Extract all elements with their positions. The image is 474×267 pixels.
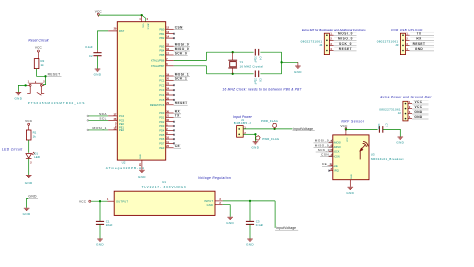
svg-text:PD6: PD6 <box>159 137 165 141</box>
svg-text:AVCC: AVCC <box>146 24 149 30</box>
wire U1 GND <box>223 205 231 217</box>
wire J1 pin1 to inputVoltage <box>243 128 292 130</box>
svg-text:PWR_FLAG: PWR_FLAG <box>262 137 279 141</box>
svg-text:RESET: RESET <box>48 73 61 77</box>
wire R2 to RESET node <box>37 69 46 77</box>
svg-text:GND: GND <box>226 221 234 225</box>
svg-text:XTAL2/PB7: XTAL2/PB7 <box>151 64 165 68</box>
pin 3 (J3) <box>402 45 404 47</box>
pin PC1 (MCU right) <box>166 79 174 81</box>
svg-text:U3: U3 <box>371 152 375 156</box>
pin RST (MCU left) <box>108 30 117 32</box>
pin RESET/PC6 (MCU right) <box>166 104 174 106</box>
capacitor C3 <box>249 201 251 222</box>
wire crystal right rail <box>281 52 283 74</box>
svg-text:VCC: VCC <box>347 137 349 142</box>
svg-text:PD7: PD7 <box>159 141 165 145</box>
svg-text:PD2: PD2 <box>159 120 165 124</box>
svg-text:PTS645SM43SMTR92_LFS: PTS645SM43SMTR92_LFS <box>28 101 86 105</box>
svg-text:IRQ: IRQ <box>334 169 339 173</box>
RF module U3 body <box>333 135 369 180</box>
wire VCC to OUTPUT pin <box>91 200 108 202</box>
pin 1 (J3) <box>402 34 404 36</box>
wire crystal bottom rail <box>206 73 253 75</box>
svg-text:10uF: 10uF <box>377 123 380 130</box>
no-connect IRQ <box>328 170 330 172</box>
svg-text:PD3: PD3 <box>159 124 165 128</box>
svg-text:Extra Power and Ground Rail: Extra Power and Ground Rail <box>381 95 432 99</box>
svg-text:J3: J3 <box>395 43 399 47</box>
MCU U2 ATmega328PB-AU body <box>117 22 165 160</box>
pin 4 (J3) <box>402 50 404 52</box>
pin 2 (J2) <box>405 108 407 110</box>
svg-text:PC3: PC3 <box>159 88 165 92</box>
pin PD2 (MCU right) <box>166 121 174 123</box>
svg-text:CE: CE <box>334 164 338 168</box>
svg-text:OUTPUT: OUTPUT <box>116 199 128 203</box>
svg-text:PD0: PD0 <box>159 111 165 115</box>
svg-text:PWR_FLAG: PWR_FLAG <box>261 119 278 123</box>
pin PD6 (MCU right) <box>166 138 174 140</box>
svg-text:CSN_1: CSN_1 <box>321 153 333 157</box>
pin PD4 (MCU right) <box>166 129 174 131</box>
no-connect PD4 <box>173 130 175 132</box>
svg-text:GND: GND <box>23 212 31 216</box>
svg-text:VCC: VCC <box>35 46 43 50</box>
svg-text:PD4: PD4 <box>159 128 165 132</box>
connector J1 <box>237 126 244 138</box>
node crystal top <box>232 51 234 53</box>
pin MISO (U3) <box>329 146 333 148</box>
svg-text:PC4: PC4 <box>159 93 165 97</box>
svg-text:GND: GND <box>94 73 102 77</box>
pin 1 (J4) <box>326 34 328 36</box>
svg-text:J2: J2 <box>398 111 402 115</box>
pin 3 (J4) <box>326 45 328 47</box>
pin OUTPUT (U1) <box>108 200 115 202</box>
node right rail <box>280 61 282 63</box>
pin 2 (J4) <box>326 40 328 42</box>
svg-text:VCC: VCC <box>141 24 143 29</box>
wire to input GND <box>254 134 256 141</box>
svg-text:C2: C2 <box>89 54 93 58</box>
svg-text:GND: GND <box>396 141 404 145</box>
capacitor C6 (bottom) <box>255 71 258 78</box>
svg-text:22pF: 22pF <box>254 56 257 63</box>
resistor R2 <box>34 59 39 69</box>
ground (C1) <box>97 239 103 241</box>
svg-text:MISO: MISO <box>334 145 341 149</box>
svg-text:PC2: PC2 <box>159 83 165 87</box>
svg-text:LED Circuit: LED Circuit <box>2 148 23 152</box>
pin MOSI (U3) <box>329 142 333 144</box>
svg-text:Y1: Y1 <box>240 60 244 64</box>
pin VCC (NRF top) <box>345 129 347 135</box>
svg-text:TLV2217- 33XVURG3: TLV2217- 33XVURG3 <box>142 185 187 189</box>
wire VCC rail to MCU <box>98 14 141 16</box>
no-connect PC5 <box>173 99 175 101</box>
wire C7 to GND <box>383 129 401 136</box>
ground (net label) <box>24 208 30 210</box>
svg-text:GND: GND <box>96 243 104 247</box>
svg-text:MISO_0_1: MISO_0_1 <box>315 143 334 147</box>
svg-text:INPUT: INPUT <box>204 199 213 203</box>
pin 2 (J3) <box>402 40 404 42</box>
wire R1 to D1 <box>28 140 30 153</box>
pin GND (MCU bottom) <box>141 160 143 170</box>
pin PE2/MOSI_1 (MCU left) <box>87 129 89 131</box>
ground (U3) <box>348 187 354 189</box>
connector J2 <box>403 101 408 121</box>
capacitor C4 (top) <box>255 49 258 56</box>
pin PD0 (MCU right) <box>166 112 174 114</box>
node NRF VCC junction <box>345 128 347 130</box>
svg-text:LED: LED <box>34 155 40 159</box>
pin PC5 (MCU right) <box>166 99 174 101</box>
pin VCC (MCU top) <box>141 15 143 22</box>
wire C3 to GND <box>249 224 251 238</box>
svg-text:0.1uF: 0.1uF <box>85 45 93 49</box>
wire GND label to ground <box>27 198 29 207</box>
pin 1 (J2) <box>405 103 407 105</box>
no-connect PD6 <box>173 138 175 140</box>
ground (input power) <box>253 142 259 144</box>
svg-text:VCC: VCC <box>25 119 33 123</box>
capacitor C7 (NRF decoupling) <box>379 126 382 133</box>
no-connect PD2 <box>173 121 175 123</box>
svg-text:VCC: VCC <box>79 199 87 203</box>
pin PE3 (MCU right) <box>166 147 174 149</box>
switch SW1 PTS645 <box>27 81 44 95</box>
svg-text:16 MHZ Crystal: 16 MHZ Crystal <box>240 64 264 68</box>
pin PC4/SDA (MCU left) <box>87 115 89 117</box>
wire inputVoltage drop <box>274 201 276 228</box>
connector J3 <box>400 33 405 54</box>
svg-text:PC4: PC4 <box>119 114 125 118</box>
wire AVCC branch <box>142 15 146 22</box>
svg-text:B4B4B5-J: B4B4B5-J <box>234 121 251 125</box>
no-connect PB1 <box>173 33 175 35</box>
node RESET junction <box>44 75 46 77</box>
svg-text:MOSI_1: MOSI_1 <box>93 126 107 130</box>
svg-text:PE2: PE2 <box>119 128 124 132</box>
no-connect PC3 <box>173 89 175 91</box>
svg-text:GND: GND <box>25 181 33 185</box>
no-connect PC4 <box>173 94 175 96</box>
svg-text:1k: 1k <box>33 134 37 138</box>
wire INPUT to inputVoltage <box>223 200 276 202</box>
svg-text:PC1: PC1 <box>159 78 165 82</box>
svg-text:C4: C4 <box>258 56 261 60</box>
svg-text:22uF: 22uF <box>106 223 113 227</box>
pin XTAL2/PB7 (MCU right) <box>166 65 174 67</box>
svg-text:MOSI: MOSI <box>334 141 341 145</box>
pin PB4 (MCU right) <box>166 50 174 52</box>
svg-text:NRF Sensor: NRF Sensor <box>341 119 364 123</box>
svg-text:Extra SPI for Bootloader and A: Extra SPI for Bootloader and Additional … <box>302 28 366 32</box>
wire MCU RST to C2 <box>98 31 109 50</box>
LED D1 <box>26 152 35 158</box>
pin PC2 (MCU right) <box>166 84 174 86</box>
svg-text:PB1: PB1 <box>159 32 164 36</box>
no-connect PD3 <box>173 125 175 127</box>
power flag PWR_FLAG (top) <box>274 127 276 130</box>
connector J4 <box>324 33 329 54</box>
pin PB5 (MCU right) <box>166 54 174 56</box>
svg-text:RST: RST <box>119 29 125 33</box>
svg-text:22pF: 22pF <box>254 78 257 85</box>
pin XTAL1/PB6 (MCU right) <box>166 60 174 62</box>
pin PD1 (MCU right) <box>166 116 174 118</box>
node PWR_FLAG2 <box>254 133 256 135</box>
svg-text:Voltage Regulation: Voltage Regulation <box>198 176 231 180</box>
ground (C3) <box>247 239 253 241</box>
pin PC0 (MCU right) <box>166 75 174 77</box>
pin INPUT (U1) <box>215 200 223 202</box>
svg-text:CSN: CSN <box>334 154 340 158</box>
svg-text:16 MHZ Clock: needs to be betw: 16 MHZ Clock: needs to be between PB6 & … <box>222 88 301 92</box>
svg-text:U2: U2 <box>122 160 126 164</box>
svg-text:inputVoltage: inputVoltage <box>276 226 296 230</box>
svg-text:PC0: PC0 <box>159 74 165 78</box>
wire RESET node to switch <box>43 76 46 84</box>
ground (reset switch) <box>16 93 22 95</box>
ground (C2) <box>95 69 101 71</box>
svg-text:GND: GND <box>246 243 254 247</box>
svg-text:RESET/PC6: RESET/PC6 <box>150 103 165 107</box>
wire NRF VCC to C7 <box>346 128 378 130</box>
svg-text:GND: GND <box>351 174 353 179</box>
pin PD3 (MCU right) <box>166 125 174 127</box>
svg-text:GND: GND <box>294 70 302 74</box>
svg-text:PB3: PB3 <box>159 44 164 48</box>
pin 4 (J2) <box>405 118 407 120</box>
pin PC4 (MCU right) <box>166 94 174 96</box>
svg-text:GND: GND <box>346 191 354 195</box>
svg-text:PE3: PE3 <box>159 146 164 150</box>
crystal Y1 <box>232 52 234 60</box>
resistor R1 <box>26 130 31 140</box>
ground (LED circuit) <box>26 175 32 177</box>
pin PC3 (MCU right) <box>166 89 174 91</box>
svg-text:GND: GND <box>28 194 37 198</box>
capacitor C2 <box>97 50 99 53</box>
wire J1 pin2 to GND <box>243 133 255 135</box>
svg-text:inputVoltage: inputVoltage <box>293 127 313 131</box>
power flag PWR_FLAG (bottom) <box>255 135 261 141</box>
svg-text:SCK_0/1: SCK_0/1 <box>318 148 334 152</box>
svg-text:SCK: SCK <box>334 150 340 154</box>
pin GND (U3 bottom) <box>349 180 351 187</box>
node PWR_FLAG1 <box>273 128 275 130</box>
pin PB2 (MCU right) <box>166 37 174 39</box>
svg-text:CE_1: CE_1 <box>322 162 332 166</box>
node C3 junction <box>249 200 251 202</box>
node crystal bottom <box>232 73 234 75</box>
wire C1 to GND <box>99 224 101 238</box>
ground (U1) <box>227 217 233 219</box>
svg-text:C6: C6 <box>258 78 261 82</box>
pin PB1 (MCU right) <box>166 33 174 35</box>
pin PB3 (MCU right) <box>166 45 174 47</box>
svg-text:PC5: PC5 <box>159 98 165 102</box>
wire D1 to GND <box>28 159 30 175</box>
svg-text:XTAL1/PB6: XTAL1/PB6 <box>151 59 165 63</box>
svg-text:VCC: VCC <box>340 124 348 128</box>
pin PD7 (MCU right) <box>166 142 174 144</box>
pin PC5/SCL (MCU left) <box>87 120 89 122</box>
svg-text:GND: GND <box>14 97 22 101</box>
pin CSN (U3) <box>329 155 333 157</box>
pin PB0 (MCU right) <box>166 28 174 30</box>
svg-text:U1: U1 <box>162 180 166 184</box>
wire XTAL1 to loop <box>174 60 207 62</box>
svg-text:GND: GND <box>140 154 142 159</box>
wire to crystal GND <box>282 61 298 63</box>
pin SCK (U3) <box>329 151 333 153</box>
svg-text:PD1: PD1 <box>159 115 165 119</box>
node VCC junction <box>141 14 143 16</box>
svg-text:PB5: PB5 <box>159 53 164 57</box>
svg-text:MOSI_0_0: MOSI_0_0 <box>315 139 334 143</box>
pin IRQ (U3) <box>329 170 333 172</box>
ground (crystal) <box>295 66 301 68</box>
ground (MCU) <box>139 170 145 172</box>
no-connect PC2 <box>173 84 175 86</box>
svg-text:GND: GND <box>207 203 214 207</box>
wire crystal top rail <box>206 51 253 53</box>
wire C2 to GND <box>97 56 99 69</box>
no-connect PD7 <box>173 143 175 145</box>
svg-text:PD5: PD5 <box>159 133 165 137</box>
wire switch to GND <box>24 84 26 86</box>
svg-text:GND: GND <box>138 175 146 179</box>
svg-text:PB4: PB4 <box>159 49 164 53</box>
svg-text:GND: GND <box>251 145 259 149</box>
pin GND (U1) <box>215 204 223 206</box>
svg-text:SDA: SDA <box>99 112 107 116</box>
pin CE (U3) <box>329 165 333 167</box>
no-connect PB2 <box>173 37 175 39</box>
svg-text:PB0: PB0 <box>159 27 164 31</box>
antenna icon (U3) <box>360 141 369 159</box>
svg-text:PB2: PB2 <box>159 36 164 40</box>
pin 4 (J4) <box>326 50 328 52</box>
svg-text:C7: C7 <box>385 123 388 127</box>
wire XTAL2 to loop <box>174 65 207 67</box>
svg-text:PC5: PC5 <box>119 119 125 123</box>
svg-text:J4: J4 <box>319 43 323 47</box>
pin PD5 (MCU right) <box>166 134 174 136</box>
svg-text:NRF24L01_Breakout: NRF24L01_Breakout <box>371 157 404 161</box>
svg-text:SCL: SCL <box>99 117 107 121</box>
ground (NRF cap) <box>398 137 404 139</box>
no-connect PD5 <box>173 134 175 136</box>
capacitor C1 <box>99 201 101 221</box>
wire VCC to R2 <box>37 54 39 59</box>
node C1 junction <box>99 200 101 202</box>
svg-text:Reset Circuit: Reset Circuit <box>28 39 49 43</box>
pin 3 (J2) <box>405 113 407 115</box>
svg-text:0.1uF: 0.1uF <box>256 223 264 227</box>
